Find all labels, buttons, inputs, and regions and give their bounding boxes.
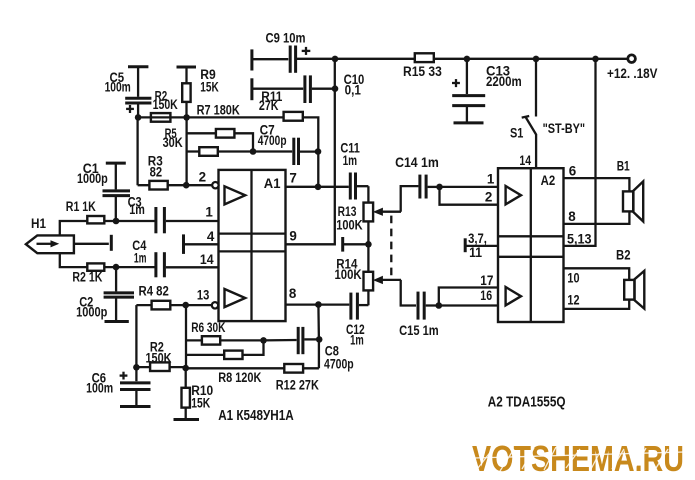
capacitor C8	[264, 327, 320, 354]
wire: pin 8 row	[286, 303, 350, 305]
resistor R8	[186, 340, 264, 359]
switch S1	[522, 59, 536, 168]
svg-text:1000p: 1000p	[77, 171, 108, 186]
wire: pin 8 to B1	[564, 211, 630, 224]
resistor R2 (150K upper)	[151, 113, 171, 122]
capacitor C15	[418, 292, 439, 320]
label C2 1000p	[76, 294, 107, 319]
svg-text:H1: H1	[31, 216, 46, 231]
label R2 1K	[72, 269, 102, 284]
svg-text:2200m: 2200m	[486, 74, 522, 89]
loudspeaker B1	[623, 181, 643, 221]
wire: pin 8 column down to R12 row	[317, 305, 320, 369]
capacitor C4	[156, 252, 219, 277]
svg-text:14: 14	[519, 153, 531, 168]
label R8 120K	[218, 370, 261, 385]
ground below C6	[120, 405, 151, 408]
resistor R3	[138, 181, 213, 190]
connector H1	[26, 235, 74, 253]
svg-text:4: 4	[207, 229, 215, 244]
A2 pin 2 label	[485, 189, 492, 204]
svg-text:C14 1m: C14 1m	[395, 155, 439, 170]
wire: R4 left column down to C6 junction	[135, 305, 137, 368]
label R1 1K	[66, 199, 96, 214]
node: pin 8 junction	[315, 301, 322, 308]
potentiometer R13	[364, 186, 402, 244]
resistor R15	[415, 53, 434, 62]
wire: pin 7 row	[286, 186, 349, 188]
ground below C2	[105, 320, 129, 323]
svg-text:4700p: 4700p	[258, 133, 287, 148]
label C15 1m	[399, 323, 439, 338]
svg-text:4700p: 4700p	[324, 357, 354, 372]
wire: H1 shield stub	[74, 235, 111, 251]
node: C9 to rail junction	[332, 56, 339, 63]
node: pin 2 junction	[183, 182, 190, 189]
svg-text:R7 180K: R7 180K	[197, 102, 240, 117]
svg-text:R1 1K: R1 1K	[66, 199, 96, 214]
A1 pin 9 label	[289, 229, 296, 244]
svg-text:100m: 100m	[105, 80, 131, 95]
A2 pin 3,7, label	[468, 231, 487, 246]
A1 pin 8 label	[289, 286, 297, 301]
svg-text:15K: 15K	[200, 80, 219, 95]
A1 pin 14 label	[200, 252, 214, 267]
label R5 30K	[163, 126, 183, 150]
A1 pin 13 bubble	[212, 302, 218, 308]
label C3 1m	[128, 194, 145, 217]
label R9 15K	[200, 67, 219, 95]
node: bottom row junction	[182, 365, 189, 372]
wire: A2 pin 2 lead	[440, 187, 499, 205]
label R2 150K upper	[153, 88, 178, 112]
wire: R7 row with corner down to pin 7	[138, 117, 318, 186]
wire: pin 12 to B2	[564, 300, 630, 309]
wire: pin 10 to B2	[564, 268, 630, 280]
svg-text:150K: 150K	[146, 350, 172, 365]
node: pin 7 junction	[315, 184, 322, 191]
capacitor C5 electrolytic	[125, 67, 151, 118]
label C8 4700p	[324, 343, 354, 371]
A2 pin 8 label	[568, 209, 576, 224]
svg-text:1m: 1m	[343, 153, 358, 168]
node: C7 junction on pin7 column	[315, 148, 322, 155]
A2 pin 16 label	[480, 288, 492, 303]
svg-text:R2 1K: R2 1K	[72, 269, 102, 284]
node: C5/R2 junction	[135, 114, 142, 121]
svg-text:1m: 1m	[350, 332, 364, 347]
ground below C13	[454, 121, 484, 124]
node: C8 junction	[316, 336, 323, 343]
svg-text:1: 1	[487, 172, 495, 187]
svg-text:A1 К548УН1А: A1 К548УН1А	[218, 407, 294, 424]
svg-text:100m: 100m	[86, 380, 113, 395]
label C1 1000p	[77, 161, 108, 186]
node: pin 13 junction	[182, 302, 189, 309]
svg-text:C9 10m: C9 10m	[266, 30, 306, 45]
node: speaker bus junction	[592, 56, 599, 63]
svg-text:R8 120K: R8 120K	[218, 370, 261, 385]
A1 pin 4 label	[207, 229, 215, 244]
svg-text:6: 6	[569, 163, 576, 178]
label C6 100m	[86, 370, 113, 395]
wire: R14 wiper down to C15	[401, 280, 416, 306]
resistor R9	[177, 67, 197, 117]
wire: R13 wiper up to C14	[401, 186, 419, 212]
svg-text:C15 1m: C15 1m	[399, 323, 439, 338]
svg-text:S1: S1	[510, 125, 524, 140]
label R6 30K	[191, 320, 225, 335]
node: C15 junction	[436, 302, 443, 309]
resistor R2 (1K)	[87, 263, 104, 270]
label C13 2200m	[486, 63, 522, 89]
wire: A2 pin 17 lead	[439, 288, 498, 306]
watermark votshema.ru	[472, 438, 684, 479]
svg-text:100K: 100K	[335, 267, 362, 282]
svg-text:R4 82: R4 82	[139, 283, 169, 298]
label C9 10m	[266, 30, 306, 45]
wire: A2 pin 1 lead	[440, 186, 499, 188]
label R13 100K	[336, 204, 363, 232]
A2 pin 17 label	[480, 273, 493, 288]
A1 pin 4 stub with bar	[184, 234, 219, 254]
svg-text:14: 14	[200, 252, 214, 267]
svg-text:150K: 150K	[153, 97, 178, 112]
svg-text:B2: B2	[616, 248, 631, 263]
label C14 1m	[395, 155, 439, 170]
svg-text:2: 2	[199, 169, 206, 184]
resistor R6	[186, 336, 264, 344]
svg-text:10: 10	[567, 271, 579, 286]
svg-text:12: 12	[567, 292, 579, 307]
svg-text:8: 8	[568, 209, 576, 224]
svg-text:R12 27K: R12 27K	[276, 377, 319, 392]
label R14 100K	[335, 256, 362, 282]
label C5 100m	[105, 70, 131, 95]
svg-text:9: 9	[289, 229, 296, 244]
label R11 27K	[259, 89, 283, 113]
label R2 150K lower	[146, 340, 172, 366]
svg-text:5,13: 5,13	[567, 232, 592, 247]
label R7 180K	[197, 102, 240, 117]
label H1	[31, 216, 46, 231]
svg-text:17: 17	[480, 273, 493, 288]
svg-text:30K: 30K	[163, 135, 183, 150]
label S1	[510, 125, 524, 140]
capacitor C6 electrolytic	[120, 367, 151, 406]
resistor R4	[136, 301, 212, 310]
label C10 0,1	[344, 72, 365, 98]
label B2	[616, 248, 631, 263]
op-amp U A1 box	[219, 170, 286, 321]
label A2 TDA1555Q	[488, 393, 566, 410]
label C12 1m	[346, 322, 365, 348]
svg-text:7: 7	[289, 170, 296, 185]
svg-text:82: 82	[150, 164, 163, 179]
node: R1/C1/C3 junction	[113, 218, 120, 225]
label R3 82	[148, 154, 163, 180]
svg-text:13: 13	[197, 288, 209, 303]
label R10 15K	[191, 383, 213, 411]
node: R5/C7 junction	[250, 148, 257, 155]
svg-text:VOTSHEMA.RU: VOTSHEMA.RU	[472, 438, 684, 479]
resistor (feedback row to pin 2)	[187, 147, 253, 156]
terminal +12..18V	[628, 55, 636, 63]
resistor R5 30K with corner	[187, 129, 253, 152]
label B1	[617, 159, 630, 174]
wire +V power rail	[297, 58, 628, 60]
capacitor C11	[350, 173, 368, 200]
svg-text:8: 8	[289, 286, 297, 301]
svg-text:2: 2	[485, 189, 492, 204]
capacitor C13 electrolytic	[452, 59, 485, 122]
wire: left column C5 to R3	[136, 117, 138, 185]
wire: H1 bottom lead to R2 row	[60, 253, 155, 267]
label A2	[541, 172, 556, 188]
A1 pin 2 bubble	[212, 182, 218, 188]
label C11 1m	[340, 141, 360, 168]
wire: pin 6 to B1	[564, 178, 630, 191]
svg-text:R15 33: R15 33	[403, 64, 442, 79]
resistor R7 (body on R7 row)	[284, 112, 303, 121]
svg-text:0,1: 0,1	[345, 82, 362, 97]
node: R2/C2/C4 junction	[113, 264, 120, 271]
svg-text:27K: 27K	[259, 98, 279, 113]
svg-text:R6 30K: R6 30K	[191, 320, 225, 335]
label R12 27K	[276, 377, 319, 392]
A1 pin 13 label	[197, 288, 209, 303]
A1 pin 1 label	[205, 204, 213, 219]
svg-text:A2 TDA1555Q: A2 TDA1555Q	[488, 393, 566, 410]
capacitor C10	[252, 75, 335, 103]
wire: H1 top lead to R1 row	[60, 221, 155, 235]
node: R13/R14 junction	[365, 241, 372, 248]
label +12..18V	[607, 66, 658, 81]
svg-text:A1: A1	[264, 175, 281, 191]
loudspeaker B2	[624, 271, 644, 309]
A2 pin 6 label	[569, 163, 576, 178]
node: R2/R9/R7 junction	[183, 114, 190, 121]
capacitor C3	[156, 207, 219, 233]
capacitor C9	[252, 46, 310, 73]
A1 pin 7 label	[289, 170, 296, 185]
wire: junction stub with bar	[343, 237, 369, 252]
svg-text:1: 1	[205, 204, 213, 219]
label C4 1m	[132, 238, 147, 266]
A2 pin 10 label	[567, 271, 579, 286]
capacitor C7	[253, 138, 318, 165]
resistor R12 with row wire	[186, 364, 319, 373]
A1 pin 2 label	[199, 169, 206, 184]
A2 pin 1 label	[487, 172, 495, 187]
svg-text:+12. .18V: +12. .18V	[607, 66, 658, 81]
capacitor C12	[351, 293, 369, 320]
svg-text:15K: 15K	[191, 395, 210, 410]
svg-text:1000p: 1000p	[76, 304, 107, 319]
resistor R2 (150K lower)	[136, 362, 186, 371]
A2 pin 12 label	[567, 292, 579, 307]
A2 pin 14 label	[519, 153, 531, 168]
node: S1 junction	[533, 56, 540, 63]
svg-text:1m: 1m	[134, 251, 147, 266]
svg-text:1m: 1m	[129, 202, 145, 217]
wire: vertical from R2/R7 junction down to pin 2	[185, 117, 187, 185]
node: C13 junction	[464, 56, 471, 63]
IC A2 box	[498, 168, 564, 322]
A2 pins 3,7,11 stub with bar	[465, 238, 498, 252]
capacitor C1	[103, 163, 131, 221]
node: R6/C8 junction	[260, 337, 267, 344]
label R15 33	[403, 64, 442, 79]
wire: pin13 column down to bottom row	[185, 305, 187, 368]
wire: bus from rail down to pin 9 of A1	[286, 59, 335, 245]
node: C6 junction	[133, 364, 140, 371]
ground below R10	[174, 418, 200, 421]
node: C10 junction on bus	[332, 85, 339, 92]
wire: A2 pin 16 lead	[439, 304, 498, 306]
svg-text:"ST-BY": "ST-BY"	[543, 121, 586, 136]
capacitor C2	[104, 267, 134, 320]
svg-text:11: 11	[469, 245, 482, 260]
ganged pots dashed link	[390, 216, 392, 280]
label "ST-BY"	[543, 121, 586, 136]
svg-text:A2: A2	[541, 172, 556, 188]
A2 pin 11 label	[469, 245, 482, 260]
resistor R1	[87, 216, 104, 223]
label A1 К548УН1А	[218, 407, 294, 424]
resistor R10	[182, 368, 190, 419]
svg-text:100K: 100K	[336, 217, 363, 232]
svg-text:B1: B1	[617, 159, 630, 174]
svg-text:3,7,: 3,7,	[468, 231, 487, 246]
svg-text:16: 16	[480, 288, 492, 303]
potentiometer R14	[364, 244, 402, 305]
label A1	[264, 175, 281, 191]
node: C14 junction	[436, 184, 443, 191]
A2 pin 5,13 label	[567, 232, 592, 247]
wire: speaker bus down to pins 5,13	[564, 59, 596, 246]
label C7 4700p	[258, 122, 287, 148]
label R4 82	[139, 283, 169, 298]
capacitor C14	[420, 175, 440, 199]
